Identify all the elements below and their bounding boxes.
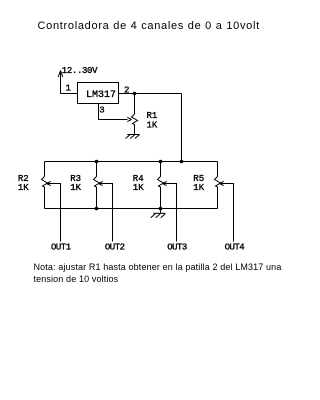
svg-text:1K: 1K: [18, 183, 29, 193]
ground (bottom bus): [151, 209, 166, 218]
R1 wiper arrow: [127, 117, 131, 121]
svg-text:1K: 1K: [133, 183, 144, 193]
svg-text:OUT4: OUT4: [225, 243, 245, 253]
R2 wiper arrow and wire to OUT1: [47, 184, 61, 242]
potentiometer R2 body: [44, 162, 46, 209]
node bottom bus R4/ground: [159, 207, 163, 211]
svg-text:1K: 1K: [147, 120, 158, 130]
wire top bus: [45, 161, 218, 163]
svg-text:1K: 1K: [193, 183, 204, 193]
svg-text:OUT3: OUT3: [167, 243, 187, 253]
wire bottom bus: [45, 208, 218, 210]
node top bus R3: [95, 160, 99, 164]
svg-text:R1: R1: [147, 111, 158, 121]
node top bus feed: [180, 160, 184, 164]
svg-text:2: 2: [124, 86, 129, 96]
wire pin3: [99, 104, 128, 120]
R5 wiper arrow and wire to OUT4: [220, 184, 234, 242]
potentiometer R5 body: [217, 162, 219, 209]
svg-text:OUT2: OUT2: [105, 243, 125, 253]
svg-text:OUT1: OUT1: [51, 243, 71, 253]
svg-text:tension de 10 voltios: tension de 10 voltios: [34, 274, 119, 284]
potentiometer R1 body: [134, 94, 136, 115]
R3 wiper arrow and wire to OUT2: [99, 184, 113, 242]
wire pin2 to top bus: [181, 94, 183, 162]
supply arrow 12..30V: [58, 71, 63, 94]
node R1 tap: [133, 92, 137, 96]
wire pin1: [61, 93, 78, 95]
wire pin2: [119, 93, 182, 95]
node top bus R4: [159, 160, 163, 164]
svg-text:12..30V: 12..30V: [62, 66, 98, 76]
svg-text:LM317: LM317: [86, 90, 116, 101]
potentiometer R3 body: [96, 162, 98, 209]
R4 wiper arrow and wire to OUT3: [163, 184, 177, 242]
svg-text:Nota: ajustar R1 hasta obtener: Nota: ajustar R1 hasta obtener en la pat…: [34, 262, 282, 272]
junction node dots: [95, 92, 184, 211]
svg-text:1K: 1K: [70, 183, 81, 193]
ground (R1): [126, 135, 140, 139]
svg-text:1: 1: [66, 84, 71, 94]
node bottom bus R3: [95, 207, 99, 211]
svg-text:Controladora de 4 canales de 0: Controladora de 4 canales de 0 a 10volt: [38, 20, 260, 32]
svg-text:3: 3: [99, 106, 104, 116]
potentiometer R4 body: [160, 162, 162, 209]
regulator U1 LM317 box: [78, 83, 119, 104]
